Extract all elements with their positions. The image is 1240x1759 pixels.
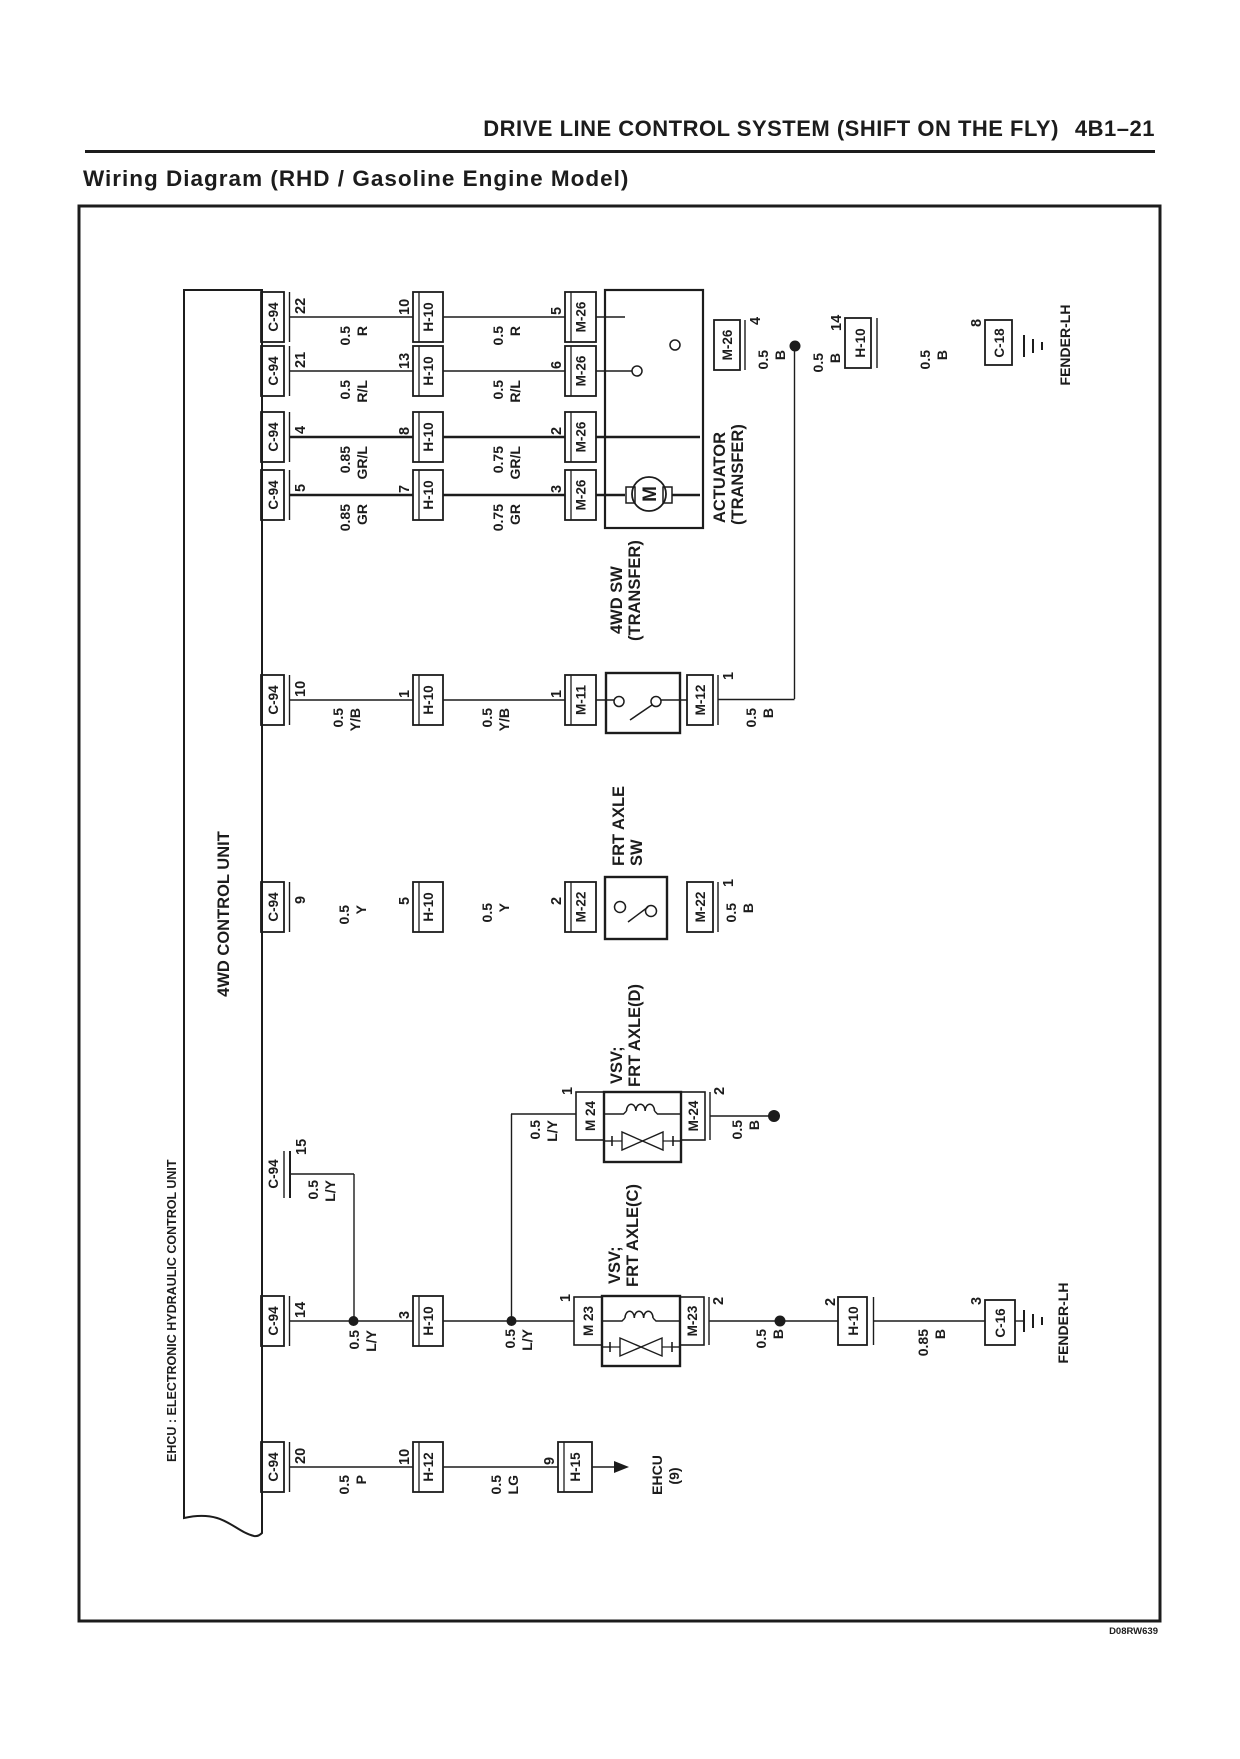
connector M-26 pin 2 xyxy=(549,412,596,462)
svg-text:R: R xyxy=(507,326,523,336)
connector M-26 pin 5 xyxy=(549,292,596,342)
connector C-94 pin 15 xyxy=(266,1139,310,1198)
connector H-10 pin 1 xyxy=(397,675,443,725)
connector M-24 pin 1 (VSV D in) xyxy=(560,1087,604,1140)
junction node VSV(D) B xyxy=(768,1110,780,1122)
svg-text:4WD CONTROL UNIT: 4WD CONTROL UNIT xyxy=(215,831,233,997)
wire label 0.5 B xyxy=(723,903,756,923)
wire label 0.5 B xyxy=(729,1120,762,1140)
svg-text:SW: SW xyxy=(628,839,646,866)
svg-text:C-94: C-94 xyxy=(266,892,281,922)
svg-text:EHCU : ELECTRONIC HYDRAULIC CO: EHCU : ELECTRONIC HYDRAULIC CONTROL UNIT xyxy=(165,1159,179,1462)
wire label 0.5 LG xyxy=(488,1475,521,1495)
svg-text:0.5: 0.5 xyxy=(488,1475,504,1495)
svg-text:9: 9 xyxy=(293,896,309,904)
svg-text:H-12: H-12 xyxy=(421,1452,436,1481)
svg-text:4: 4 xyxy=(748,317,764,325)
svg-text:C-94: C-94 xyxy=(266,1452,281,1482)
connector H-10 pin 7 xyxy=(397,470,443,520)
svg-text:1: 1 xyxy=(721,879,737,887)
connector M-12 pin 1 xyxy=(687,672,737,725)
wire H-10/3 to M 23 xyxy=(443,1320,574,1322)
svg-text:GR/L: GR/L xyxy=(507,446,523,480)
svg-text:M-12: M-12 xyxy=(693,685,708,716)
wire riser to VSV(D) xyxy=(511,1114,576,1321)
svg-text:2: 2 xyxy=(712,1087,728,1095)
svg-text:VSV;: VSV; xyxy=(606,1246,624,1284)
svg-text:0.5: 0.5 xyxy=(917,350,933,370)
wire label 0.5 Y xyxy=(479,902,512,922)
svg-text:0.5: 0.5 xyxy=(479,903,495,923)
svg-text:M-24: M-24 xyxy=(686,1100,701,1131)
svg-text:4WD SW: 4WD SW xyxy=(608,566,626,634)
svg-text:H-10: H-10 xyxy=(421,302,436,331)
connector M-26 pin 4 xyxy=(714,317,764,370)
svg-text:LG: LG xyxy=(505,1475,521,1495)
svg-text:2: 2 xyxy=(823,1298,839,1306)
svg-text:M 23: M 23 xyxy=(581,1306,596,1337)
svg-text:3: 3 xyxy=(549,485,565,493)
wire label 0.85 GR xyxy=(337,504,370,531)
svg-text:10: 10 xyxy=(397,1449,413,1465)
svg-text:H-10: H-10 xyxy=(421,685,436,714)
svg-text:M-11: M-11 xyxy=(574,685,589,716)
svg-text:R/L: R/L xyxy=(507,380,523,403)
header rule xyxy=(85,150,1155,153)
svg-text:1: 1 xyxy=(549,690,565,698)
wire label 0.5 L/Y xyxy=(305,1179,338,1201)
svg-text:H-10: H-10 xyxy=(846,1306,861,1335)
connector H-10 pin 13 xyxy=(397,346,443,396)
svg-text:10: 10 xyxy=(293,681,309,697)
wire C-94/5 to H-10/7 xyxy=(290,494,413,497)
svg-text:0.5: 0.5 xyxy=(337,380,353,400)
4WD SW (transfer) box xyxy=(606,673,680,733)
wire C-94/21 to H-10/13 xyxy=(290,370,413,372)
svg-text:M-26: M-26 xyxy=(574,355,589,386)
svg-text:M-26: M-26 xyxy=(574,301,589,332)
connector C-94 pin 14 xyxy=(261,1296,309,1346)
label VSV; FRT AXLE(D) xyxy=(608,984,644,1087)
valve symbol xyxy=(602,1338,680,1356)
svg-text:Y/B: Y/B xyxy=(347,708,363,731)
connector M-22 pin 1 xyxy=(687,879,737,932)
VSV FRT AXLE(C) box xyxy=(602,1296,680,1366)
svg-text:(TRANSFER): (TRANSFER) xyxy=(626,540,644,641)
svg-text:B: B xyxy=(934,350,950,360)
svg-text:0.5: 0.5 xyxy=(479,708,495,728)
wire label 0.5 P xyxy=(336,1475,369,1495)
svg-text:0.85: 0.85 xyxy=(337,504,353,531)
wire C-94/14 to H-10/3 xyxy=(290,1320,413,1322)
svg-text:2: 2 xyxy=(549,427,565,435)
arrowhead to EHCU xyxy=(614,1461,629,1473)
svg-text:GR: GR xyxy=(354,504,370,525)
wire C-16 to ground xyxy=(1015,1320,1024,1322)
junction node riser xyxy=(507,1316,517,1326)
svg-text:13: 13 xyxy=(397,353,413,369)
connector M-11 pin 1 xyxy=(549,675,596,725)
svg-text:Y/B: Y/B xyxy=(496,708,512,731)
svg-text:0.5: 0.5 xyxy=(527,1120,543,1140)
svg-text:5: 5 xyxy=(293,484,309,492)
svg-text:C-94: C-94 xyxy=(266,480,281,510)
svg-text:0.75: 0.75 xyxy=(490,504,506,531)
svg-text:20: 20 xyxy=(293,1448,309,1464)
connector C-94 pin 9 xyxy=(261,882,309,932)
wire M-26/5 to motor xyxy=(596,316,625,318)
connector H-10 pin 14 xyxy=(829,315,877,368)
page header xyxy=(0,116,1155,142)
svg-text:0.5: 0.5 xyxy=(743,708,759,728)
wire label 0.5 Y/B xyxy=(330,708,363,732)
connector H-10 pin 8 xyxy=(397,412,443,462)
connector M-23 pin 2 (VSV C out) xyxy=(680,1297,727,1345)
svg-text:L/Y: L/Y xyxy=(519,1328,535,1350)
svg-text:B: B xyxy=(932,1329,948,1339)
wire label 0.5 B xyxy=(743,708,776,728)
page title xyxy=(83,166,629,192)
wire M-12 down to junction xyxy=(718,699,795,701)
actuator wiper contact xyxy=(670,340,680,350)
svg-text:C-94: C-94 xyxy=(266,302,281,332)
svg-text:FRT AXLE: FRT AXLE xyxy=(610,786,628,866)
svg-text:0.5: 0.5 xyxy=(490,326,506,346)
svg-text:0.5: 0.5 xyxy=(755,350,771,370)
svg-text:0.5: 0.5 xyxy=(490,380,506,400)
solenoid coil xyxy=(604,1111,627,1114)
svg-text:C-18: C-18 xyxy=(992,328,1007,358)
svg-text:2: 2 xyxy=(711,1297,727,1305)
svg-text:M 24: M 24 xyxy=(583,1101,598,1132)
wire C-94/4 to H-10/8 xyxy=(290,436,413,439)
switch contacts 4WD SW xyxy=(614,697,661,721)
wire C-94/15 L/Y branch xyxy=(290,1174,354,1321)
svg-text:FENDER-LH: FENDER-LH xyxy=(1057,305,1073,386)
svg-text:EHCU: EHCU xyxy=(649,1455,665,1495)
svg-text:FRT AXLE(D): FRT AXLE(D) xyxy=(626,984,644,1087)
junction node L/Y branch xyxy=(349,1316,359,1326)
wire label 0.5 R xyxy=(337,326,370,346)
junction node (actuator B wire) xyxy=(790,341,801,352)
svg-text:L/Y: L/Y xyxy=(544,1119,560,1141)
svg-text:(TRANSFER): (TRANSFER) xyxy=(729,424,747,525)
svg-text:7: 7 xyxy=(397,485,413,493)
svg-text:B: B xyxy=(740,903,756,913)
svg-text:5: 5 xyxy=(549,307,565,315)
svg-text:B: B xyxy=(770,1329,786,1339)
actuator (transfer) box xyxy=(605,290,703,528)
svg-text:H-10: H-10 xyxy=(421,1306,436,1335)
svg-text:FRT AXLE(C): FRT AXLE(C) xyxy=(624,1184,642,1287)
svg-text:1: 1 xyxy=(721,672,737,680)
wire label 0.5 R/L xyxy=(337,380,370,403)
label 4WD SW (TRANSFER) xyxy=(608,540,644,641)
wire H-10/1 to M-11/1 xyxy=(443,699,565,701)
svg-text:H-10: H-10 xyxy=(421,892,436,921)
wire H-10/13 to M-26/6 xyxy=(443,370,565,372)
wire H-10/7 to M-26/3 xyxy=(443,494,565,497)
label ACTUATOR (TRANSFER) xyxy=(711,424,747,525)
wire C-94/20 to H-12/10 xyxy=(290,1466,413,1468)
svg-text:Y: Y xyxy=(496,902,512,912)
wire M-26/6 into actuator xyxy=(596,370,632,372)
svg-text:L/Y: L/Y xyxy=(363,1329,379,1351)
wire label 0.85 GR/L xyxy=(337,446,370,480)
label VSV; FRT AXLE(C) xyxy=(606,1184,642,1287)
svg-text:0.5: 0.5 xyxy=(336,1475,352,1495)
svg-text:0.5: 0.5 xyxy=(336,905,352,925)
svg-text:M-26: M-26 xyxy=(574,479,589,510)
wire H-10/2 to C-16 xyxy=(873,1320,985,1322)
wire 4WD SW to M-12 xyxy=(661,699,687,701)
junction node VSV B wires xyxy=(775,1316,786,1327)
svg-text:0.5: 0.5 xyxy=(337,326,353,346)
wire label 0.5 L/Y xyxy=(346,1329,379,1351)
svg-text:2: 2 xyxy=(549,897,565,905)
wire C-94/22 to H-10/10 xyxy=(290,316,413,318)
svg-text:B: B xyxy=(760,708,776,718)
wire H-10/8 to M-26/2 xyxy=(443,436,565,439)
svg-text:3: 3 xyxy=(969,1297,985,1305)
svg-text:0.85: 0.85 xyxy=(337,446,353,473)
connector C-94 pin 21 xyxy=(261,346,309,396)
svg-text:VSV;: VSV; xyxy=(608,1046,626,1084)
svg-text:H-10: H-10 xyxy=(421,422,436,451)
wire label 0.75 GR xyxy=(490,504,523,531)
svg-text:C-94: C-94 xyxy=(266,1306,281,1336)
svg-text:0.5: 0.5 xyxy=(753,1329,769,1349)
wire label 0.5 L/Y xyxy=(502,1328,535,1350)
svg-text:1: 1 xyxy=(558,1294,574,1302)
connector C-94 pin 10 xyxy=(261,675,309,725)
svg-text:0.5: 0.5 xyxy=(810,353,826,373)
svg-text:0.5: 0.5 xyxy=(502,1329,518,1349)
actuator contact xyxy=(632,366,642,376)
svg-text:B: B xyxy=(827,353,843,363)
wire label 0.85 B xyxy=(915,1329,948,1356)
svg-text:C-94: C-94 xyxy=(266,1159,281,1189)
connector C-94 pin 20 xyxy=(261,1442,309,1492)
svg-text:C-16: C-16 xyxy=(993,1308,1008,1338)
svg-text:14: 14 xyxy=(293,1302,309,1318)
svg-text:0.5: 0.5 xyxy=(346,1330,362,1350)
svg-text:C-94: C-94 xyxy=(266,422,281,452)
svg-text:H-10: H-10 xyxy=(421,480,436,509)
connector M-24 pin 2 (VSV D out) xyxy=(681,1087,728,1140)
svg-text:14: 14 xyxy=(829,315,845,331)
switch contacts FRT AXLE SW xyxy=(615,902,657,923)
svg-text:22: 22 xyxy=(293,298,309,314)
valve symbol xyxy=(604,1132,681,1150)
connector C-94 pin 5 xyxy=(261,470,309,520)
connector C-94 pin 4 xyxy=(261,412,309,462)
svg-text:0.5: 0.5 xyxy=(330,708,346,728)
wire H-15 to EHCU arrow xyxy=(592,1466,617,1468)
connector C-18 pin 8 xyxy=(969,319,1012,365)
connector M-22 pin 2 xyxy=(549,882,596,932)
svg-text:8: 8 xyxy=(969,319,985,327)
4WD control unit box xyxy=(184,290,262,1536)
connector H-12 pin 10 xyxy=(397,1442,443,1492)
ground symbol xyxy=(1024,335,1042,357)
svg-text:GR/L: GR/L xyxy=(354,446,370,480)
connector M-26 pin 3 xyxy=(549,470,596,520)
svg-text:9: 9 xyxy=(542,1457,558,1465)
svg-text:M-23: M-23 xyxy=(685,1305,700,1336)
wire label 0.5 L/Y xyxy=(527,1119,560,1141)
wire label 0.5 Y xyxy=(336,904,369,924)
wire M-23/2 to H-10/2 xyxy=(709,1320,838,1322)
wire label 0.5 B xyxy=(917,350,950,370)
svg-text:R: R xyxy=(354,326,370,336)
figure caption xyxy=(1013,1626,1158,1637)
wire label 0.5 R xyxy=(490,326,523,346)
svg-text:0.85: 0.85 xyxy=(915,1329,931,1356)
svg-text:M-22: M-22 xyxy=(693,892,708,923)
wire C-94/10 to H-10/1 xyxy=(290,699,413,701)
wire M-26/2 through actuator xyxy=(596,436,700,439)
svg-text:L/Y: L/Y xyxy=(322,1179,338,1201)
svg-text:GR: GR xyxy=(507,504,523,525)
wire junction to 4WD SW M-12 xyxy=(794,346,796,699)
connector C-94 pin 22 xyxy=(261,292,309,342)
svg-text:C-94: C-94 xyxy=(266,356,281,386)
svg-text:(9): (9) xyxy=(666,1467,682,1484)
svg-text:21: 21 xyxy=(293,352,309,368)
connector H-10 pin 3 xyxy=(397,1296,443,1346)
wire M-24/2 B xyxy=(710,1115,769,1117)
connector H-10 pin 10 xyxy=(397,292,443,342)
svg-text:0.75: 0.75 xyxy=(490,446,506,473)
wire label 0.5 R/L xyxy=(490,380,523,403)
svg-text:0.5: 0.5 xyxy=(729,1120,745,1140)
solenoid coil xyxy=(602,1318,625,1321)
motor M1 (transfer actuator) xyxy=(626,477,700,511)
FRT AXLE SW box xyxy=(605,877,667,939)
svg-text:C-94: C-94 xyxy=(266,685,281,715)
connector M-26 pin 6 xyxy=(549,346,596,396)
svg-text:M-26: M-26 xyxy=(720,329,735,360)
diagram border frame xyxy=(79,206,1160,1621)
svg-text:M-22: M-22 xyxy=(574,892,589,923)
VSV FRT AXLE(D) box xyxy=(604,1092,681,1162)
connector M-23 pin 1 (VSV C in) xyxy=(558,1294,602,1345)
svg-text:FENDER-LH: FENDER-LH xyxy=(1055,1283,1071,1364)
label FRT AXLE SW xyxy=(610,786,646,866)
svg-text:H-15: H-15 xyxy=(568,1452,583,1482)
label EHCU (9) xyxy=(649,1455,682,1495)
svg-text:6: 6 xyxy=(549,361,565,369)
wire M-26/3 to motor xyxy=(596,494,625,497)
svg-text:0.5: 0.5 xyxy=(305,1180,321,1200)
wire H-12 to H-15 xyxy=(443,1466,558,1468)
svg-text:R/L: R/L xyxy=(354,380,370,403)
svg-text:4: 4 xyxy=(293,426,309,434)
svg-text:H-10: H-10 xyxy=(421,356,436,385)
svg-text:1: 1 xyxy=(560,1087,576,1095)
wire label 0.5 B xyxy=(810,353,843,373)
svg-text:ACTUATOR: ACTUATOR xyxy=(711,432,729,523)
svg-text:M: M xyxy=(640,486,661,502)
svg-text:H-10: H-10 xyxy=(853,328,868,357)
svg-text:8: 8 xyxy=(397,427,413,435)
svg-text:B: B xyxy=(772,350,788,360)
svg-text:5: 5 xyxy=(397,897,413,905)
svg-text:P: P xyxy=(353,1475,369,1484)
connector C-16 pin 3 xyxy=(969,1297,1015,1345)
connector H-10 pin 5 xyxy=(397,882,443,932)
svg-text:15: 15 xyxy=(294,1139,310,1155)
ground symbol xyxy=(1024,1310,1042,1332)
svg-text:1: 1 xyxy=(397,690,413,698)
svg-text:M-26: M-26 xyxy=(574,421,589,452)
svg-text:B: B xyxy=(746,1120,762,1130)
connector H-10 pin 2 xyxy=(823,1297,874,1345)
connector H-15 pin 9 xyxy=(542,1442,592,1492)
wire label 0.5 B xyxy=(755,350,788,370)
svg-text:10: 10 xyxy=(397,299,413,315)
svg-text:Y: Y xyxy=(353,904,369,914)
wire label 0.75 GR/L xyxy=(490,446,523,480)
svg-text:3: 3 xyxy=(397,1311,413,1319)
wire label 0.5 Y/B xyxy=(479,708,512,732)
wire M-11 into 4WD SW xyxy=(596,699,614,701)
wire label 0.5 B xyxy=(753,1329,786,1349)
svg-text:0.5: 0.5 xyxy=(723,903,739,923)
wire H-10/10 to M-26/5 xyxy=(443,316,565,318)
